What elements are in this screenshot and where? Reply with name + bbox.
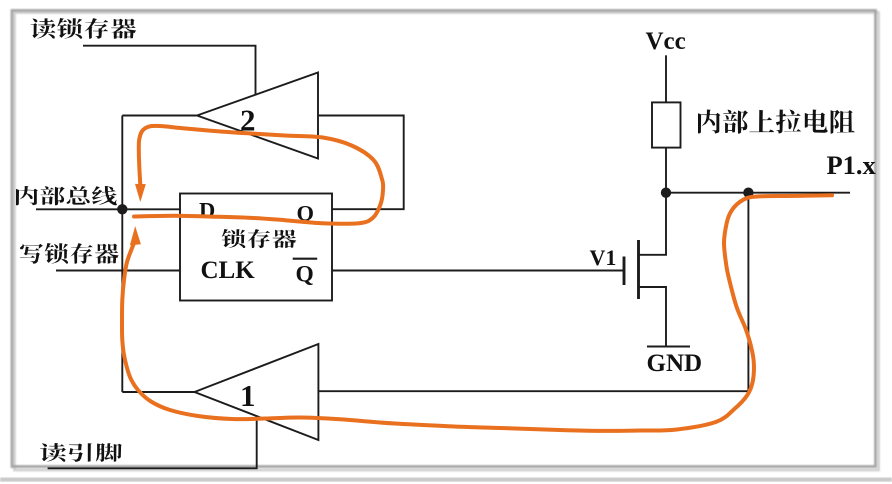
wire P1.x line <box>666 192 850 194</box>
label 读引脚 <box>40 443 122 462</box>
wire resistor to node <box>665 148 667 193</box>
tri-state buffer 2 <box>197 73 318 159</box>
label 写锁存器 <box>20 243 119 264</box>
ground bar <box>647 346 690 348</box>
wire buffer2 output to internal bus <box>122 115 197 117</box>
resistor R internal pull-up <box>652 102 681 147</box>
arrowhead up at bus node <box>130 226 141 245</box>
arrowhead down at bus node <box>135 184 146 202</box>
wire to buffer1 input <box>318 390 748 392</box>
tri-state buffer 1 <box>195 344 319 440</box>
transistor V1 drain wire <box>639 193 667 255</box>
transistor V1 source wire <box>639 287 667 347</box>
svg-text:P1.x: P1.x <box>827 150 877 180</box>
latch U1 box <box>180 194 332 301</box>
svg-text:1: 1 <box>240 378 256 413</box>
wire buffer1 output <box>122 391 194 393</box>
node A bus junction <box>117 204 127 214</box>
bottom shadow band <box>0 478 892 482</box>
wire pin node down <box>747 193 749 392</box>
node C pin junction <box>743 188 753 198</box>
wire read-latch control <box>83 46 256 95</box>
wire Vcc to resistor <box>665 55 667 102</box>
highlight path read-pin loop <box>122 195 832 431</box>
label 内部上拉电阻 <box>698 110 855 134</box>
svg-text:GND: GND <box>647 350 703 377</box>
node B resistor-drain junction <box>661 188 671 198</box>
highlight path read-latch loop <box>134 126 383 224</box>
wire read-pin control <box>48 416 257 468</box>
svg-text:Q: Q <box>296 262 314 288</box>
svg-text:Vcc: Vcc <box>646 28 686 55</box>
wire buffer2 input from Q <box>318 116 404 210</box>
label 内部总线 <box>16 186 117 205</box>
wire Qbar to gate <box>332 270 624 272</box>
svg-text:V1: V1 <box>590 245 617 270</box>
wire bus vertical <box>121 116 123 393</box>
svg-text:CLK: CLK <box>201 257 256 284</box>
transistor V1 gate bar <box>623 257 626 286</box>
label 锁存器 <box>222 229 297 248</box>
overbar of Qbar <box>293 258 318 260</box>
wire internal bus <box>36 208 180 210</box>
label 读锁存器 <box>31 18 137 39</box>
transistor V1 channel bar <box>637 240 640 299</box>
wire write-latch to CLK <box>56 270 180 272</box>
